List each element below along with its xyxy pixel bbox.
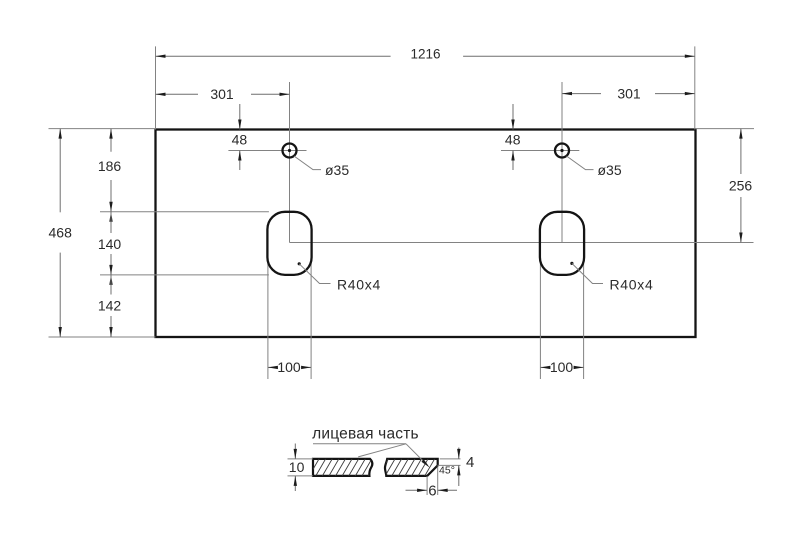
centerline vertical left hole (289, 82, 291, 243)
drain cutout right R40x4 (540, 212, 584, 275)
dimension 100 right (540, 366, 548, 368)
dimension 140 (109, 212, 112, 222)
svg-text:301: 301 (617, 85, 641, 101)
dimension 186 (110, 129, 112, 152)
svg-text:10: 10 (289, 459, 305, 475)
svg-text:R40x4: R40x4 (337, 277, 381, 293)
leader ø35 right (567, 156, 594, 170)
svg-text:48: 48 (232, 132, 248, 148)
centerline horizontal left circle (228, 150, 306, 152)
drain cutout left R40x4 (267, 212, 311, 275)
dimension 10 thickness (288, 458, 314, 460)
dimension 48 right (512, 104, 514, 130)
dimension 301 left (156, 93, 199, 95)
section bar left part with break (313, 459, 372, 476)
svg-text:ø35: ø35 (598, 162, 622, 178)
centerline vertical right hole (561, 82, 563, 243)
leader branch arrow to chamfer (406, 444, 428, 466)
svg-text:6: 6 (428, 483, 436, 500)
extension line panel left edge up (155, 46, 157, 129)
svg-text:140: 140 (98, 236, 122, 252)
svg-text:1216: 1216 (410, 46, 440, 61)
extension line top-right (696, 128, 755, 130)
leader R40x4 right (570, 262, 573, 265)
extension line oval top level (100, 211, 269, 213)
extension line oval bottom level (100, 274, 269, 276)
extension line panel right edge up (694, 46, 696, 129)
extension line bottom-left (49, 336, 156, 338)
leader underline (313, 443, 406, 445)
extension line left oval left side (267, 246, 269, 379)
dimension 468 left overall (59, 129, 61, 213)
dimension 256 right (740, 129, 742, 174)
leader ø35 left (294, 156, 321, 170)
svg-text:100: 100 (277, 359, 301, 375)
centerline horizontal right circle (501, 150, 579, 152)
svg-text:R40x4: R40x4 (610, 277, 654, 293)
svg-text:ø35: ø35 (325, 162, 349, 178)
svg-text:256: 256 (729, 177, 753, 193)
extension line right oval left side (539, 246, 541, 379)
leader R40x4 left (298, 262, 301, 265)
faucet hole circle left ø35 (283, 144, 297, 158)
dimension 6 chamfer width (426, 476, 428, 495)
extension line top-left (49, 128, 156, 130)
svg-text:48: 48 (505, 132, 521, 148)
svg-text:100: 100 (550, 359, 574, 375)
extension line right oval right side (583, 246, 585, 379)
panel outline 1216x468 (156, 130, 696, 338)
svg-text:186: 186 (98, 158, 122, 174)
dimension 142 (109, 275, 112, 285)
section bar right part with chamfer (385, 459, 438, 476)
dimension 4 chamfer height (438, 464, 461, 466)
svg-text:лицевая часть: лицевая часть (312, 425, 419, 442)
dimension 1216 top (156, 55, 391, 57)
centerline horizontal ovals (290, 242, 754, 244)
leader branch to top surface (358, 444, 406, 457)
svg-text:45°: 45° (439, 464, 455, 476)
dimension 100 left (268, 366, 276, 368)
svg-text:301: 301 (210, 86, 234, 102)
svg-text:4: 4 (466, 454, 474, 471)
dimension 48 left (239, 104, 241, 130)
svg-text:468: 468 (49, 225, 73, 241)
dimension 301 right (562, 93, 601, 95)
extension line left oval right side (310, 246, 312, 379)
svg-text:142: 142 (98, 298, 122, 314)
faucet hole circle right ø35 (555, 144, 569, 158)
